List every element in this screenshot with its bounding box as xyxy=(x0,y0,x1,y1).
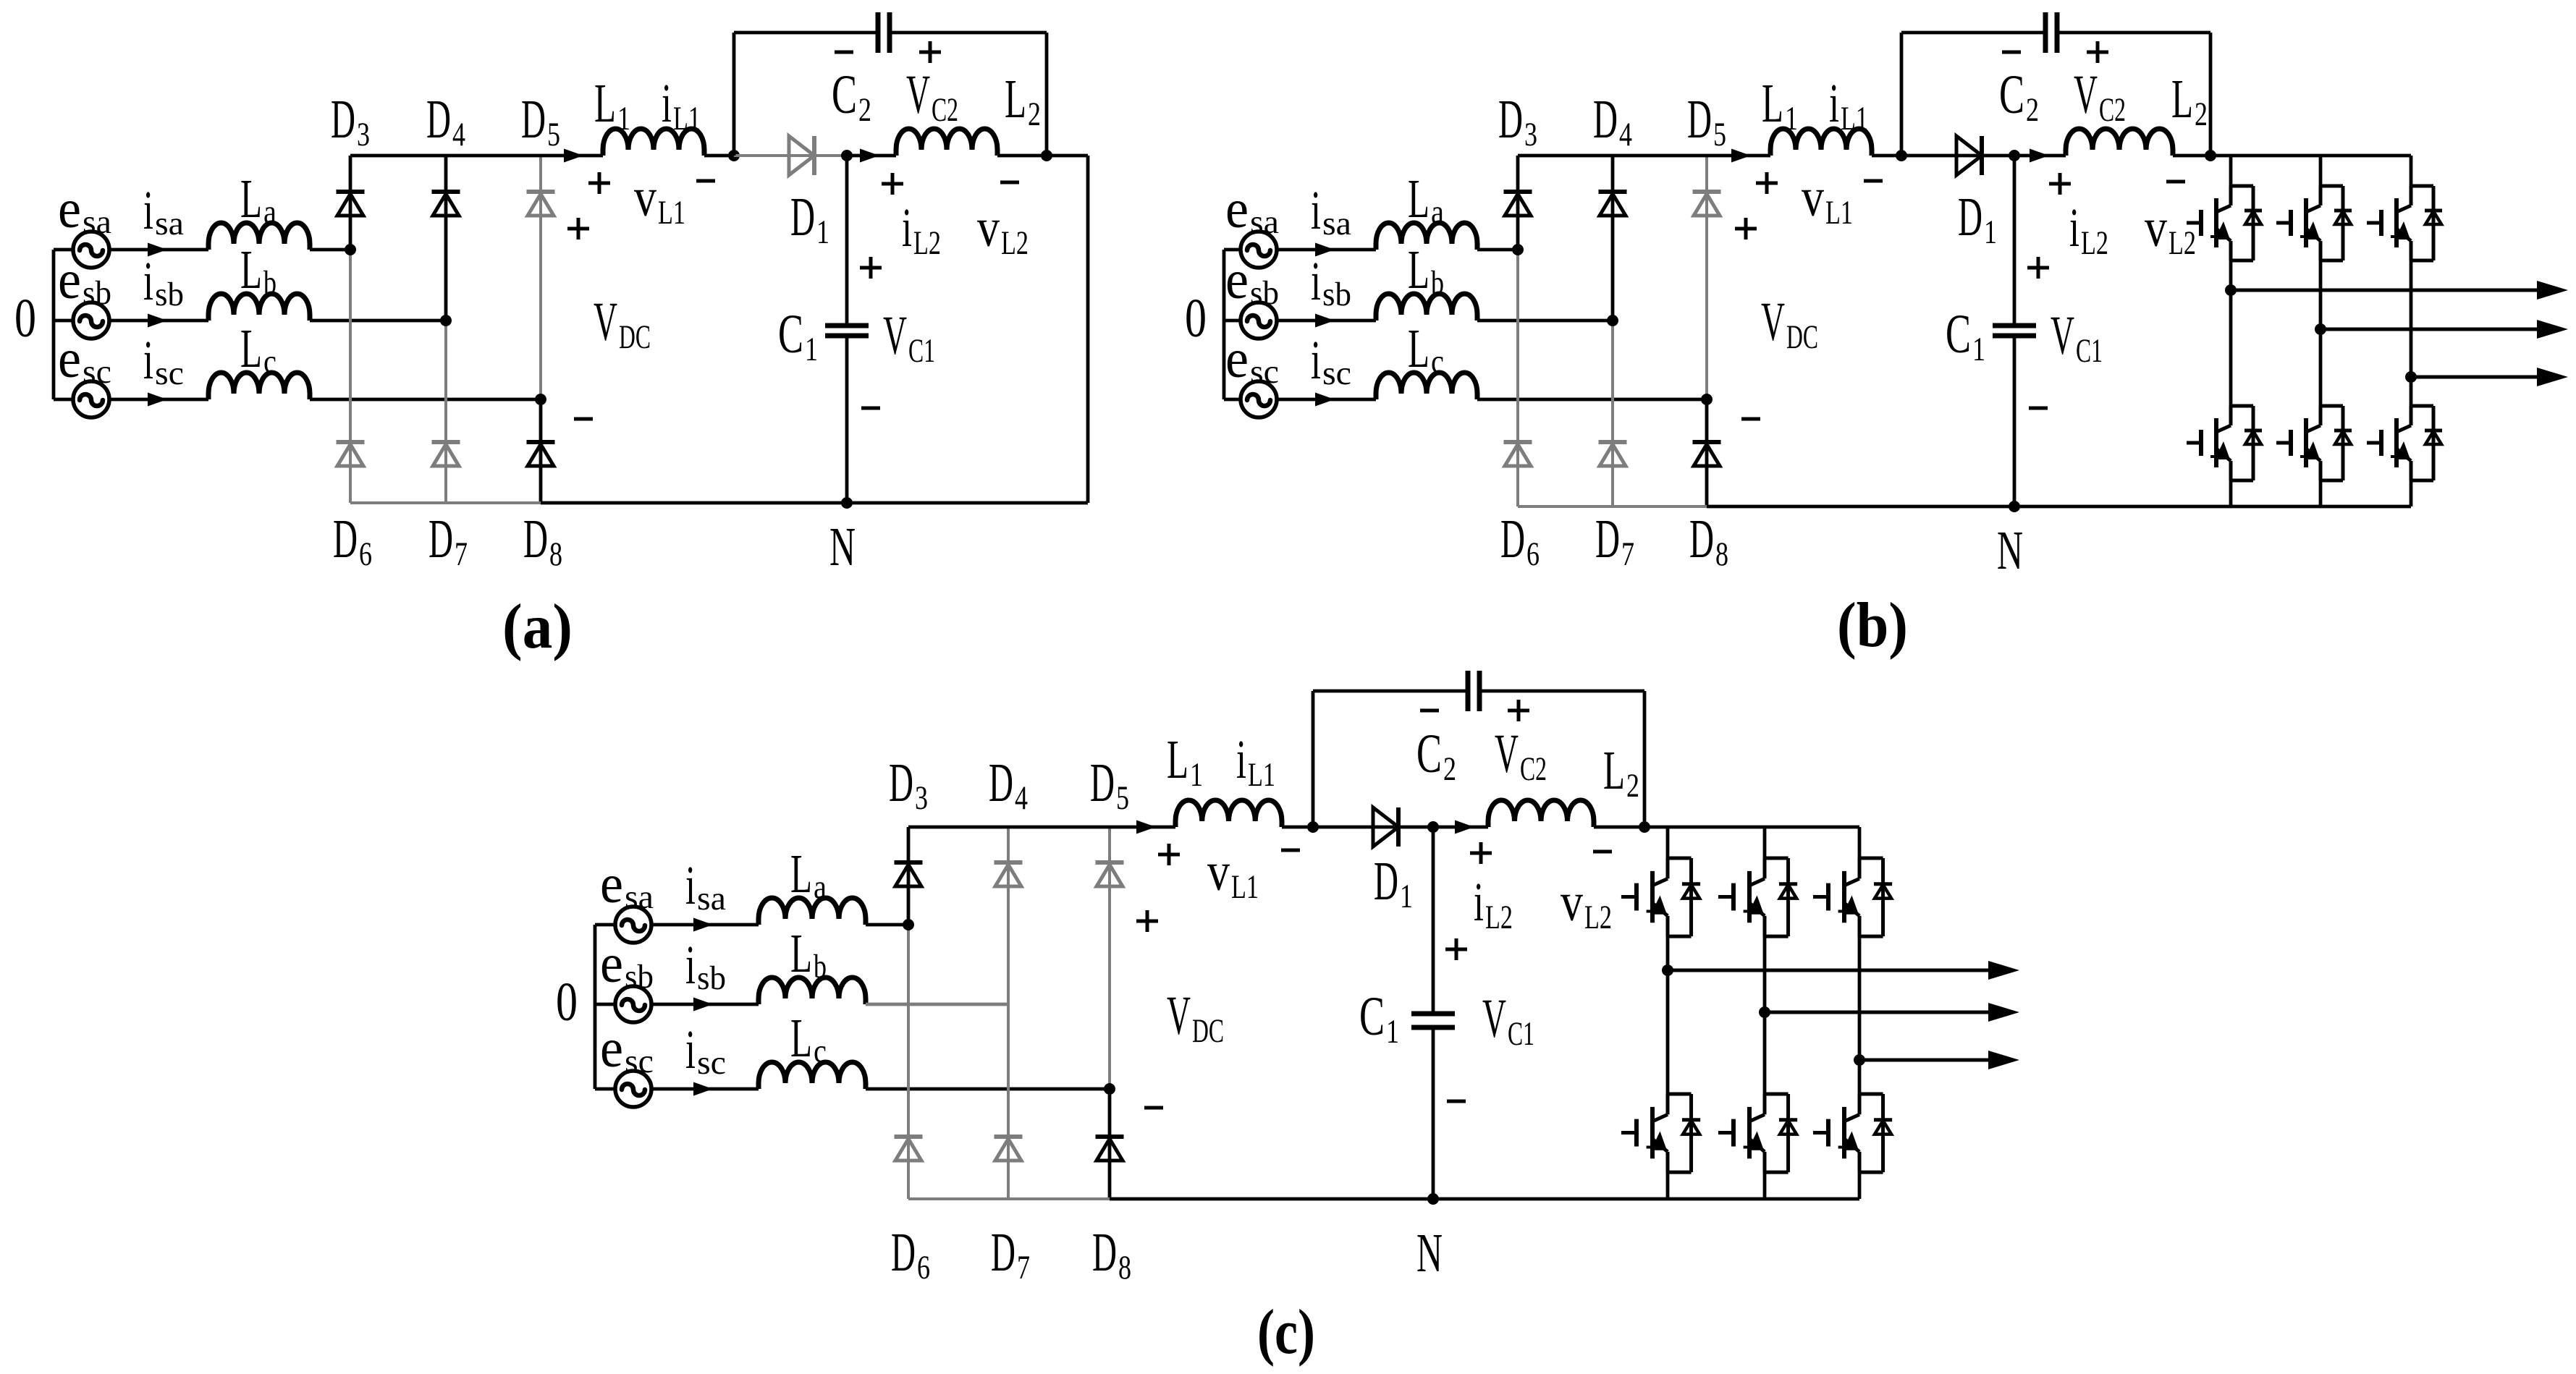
a wire C2 left vertical xyxy=(732,33,736,156)
a diode D7 xyxy=(432,440,460,444)
c inverter leg b upper wire xyxy=(1763,827,1767,858)
a capacitor C1 xyxy=(825,323,869,328)
c diode D8 xyxy=(1096,1135,1124,1139)
c C2 plus sign xyxy=(1508,709,1529,713)
c L2 minus sign xyxy=(1593,850,1612,854)
b wire C2 top left xyxy=(1901,31,2045,35)
c IGBT S5 bottom xyxy=(1765,1093,1789,1096)
a diode D3 xyxy=(337,190,365,194)
b bridge leg 2 lower wire xyxy=(1611,321,1614,506)
a node phase b junction xyxy=(440,315,452,326)
a top rail wire xyxy=(350,154,603,158)
b diode D7 xyxy=(1599,440,1627,444)
c diode D1 xyxy=(1373,807,1398,847)
b wire C1 upper xyxy=(2013,156,2017,326)
b inductor Lb xyxy=(1376,294,1477,321)
a wire inductor to bridge a xyxy=(310,248,350,252)
a wire bus to source a xyxy=(54,248,73,252)
a diode D8 xyxy=(527,440,555,444)
c bottom rail wire xyxy=(1110,1197,1859,1201)
b inverter leg c upper wire xyxy=(2410,156,2413,186)
b wire C2 top right xyxy=(2057,31,2210,35)
a wire inductor to bridge b xyxy=(310,319,446,323)
c capacitor C1 xyxy=(1411,1012,1455,1017)
svg-text:N: N xyxy=(1416,1223,1443,1284)
c node after L2 xyxy=(1639,821,1650,833)
c IGBT S2 top xyxy=(1765,857,1789,860)
svg-text:0: 0 xyxy=(556,972,578,1032)
c diode D5 xyxy=(1096,860,1124,865)
svg-text:N: N xyxy=(829,517,856,577)
b wire inductor to bridge a xyxy=(1477,248,1518,252)
c bridge leg 2 lower wire xyxy=(1007,1004,1010,1199)
a bottom rail wire xyxy=(541,501,1088,505)
a node after L2 xyxy=(1041,150,1052,161)
b node N xyxy=(2009,501,2020,512)
a C1 plus sign xyxy=(860,266,882,270)
svg-text:0: 0 xyxy=(14,288,36,349)
c current arrow i_sb xyxy=(693,998,713,1012)
c bridge leg 1 lower wire xyxy=(907,925,910,1199)
b output arrow phase b xyxy=(2320,328,2539,331)
svg-text:0: 0 xyxy=(1185,288,1207,349)
b bottom rail gray segment xyxy=(1518,505,1707,508)
b wire node to L2 xyxy=(2014,154,2066,158)
c phase b source e_sb xyxy=(615,986,651,1022)
a wire node to diode D1 xyxy=(734,154,847,157)
b diode D8 xyxy=(1693,440,1721,444)
c wire source to inductor a xyxy=(651,923,759,927)
a v_L1 minus sign xyxy=(696,179,715,183)
a node N xyxy=(841,497,853,509)
b inductor La xyxy=(1376,223,1477,250)
b wire source to inductor a xyxy=(1277,248,1376,252)
b inductor L2 xyxy=(2066,129,2173,156)
b node after L1 xyxy=(1896,150,1907,161)
c wire inductor to bridge b xyxy=(866,1003,1008,1006)
c bridge leg 3 lower wire xyxy=(1108,1089,1112,1199)
c wire inductor to bridge c xyxy=(866,1087,1110,1091)
a inductor L2 xyxy=(896,129,997,156)
a diode D4 xyxy=(432,190,460,194)
b neutral bus wire xyxy=(1222,250,1226,399)
c inductor La xyxy=(759,898,866,925)
b diode D6 xyxy=(1504,440,1532,444)
b current arrow i_sc xyxy=(1315,393,1335,407)
c wire bus to source b xyxy=(595,1003,615,1006)
b IGBT S1 top xyxy=(2231,185,2253,188)
a wire L2 to node xyxy=(997,154,1047,158)
a neutral bus wire xyxy=(52,250,56,399)
c inverter leg c middle wire xyxy=(1858,936,1862,1094)
a V_DC plus sign xyxy=(567,227,589,231)
c wire C2 top left xyxy=(1313,690,1468,693)
a bridge leg 2 lower wire xyxy=(444,321,447,503)
b wire source to inductor c xyxy=(1277,398,1376,402)
c phase c source e_sc xyxy=(615,1071,651,1107)
c neutral bus wire xyxy=(594,925,597,1089)
c diode D4 xyxy=(994,860,1023,865)
a node D1 cathode xyxy=(841,150,853,161)
b diode D1 xyxy=(1956,136,1982,175)
c inverter leg b lower wire xyxy=(1763,1172,1767,1199)
c phase a source e_sa xyxy=(615,907,651,943)
b IGBT S2 top xyxy=(2320,185,2343,188)
b IGBT S5 bottom xyxy=(2320,404,2343,408)
b output node c xyxy=(2405,371,2417,383)
b inverter leg b upper wire xyxy=(2319,156,2323,186)
b V_DC plus sign xyxy=(1735,227,1757,231)
b L2 plus sign xyxy=(2049,182,2071,186)
c wire inductor to bridge a xyxy=(866,923,908,927)
a diode D5 xyxy=(527,190,555,194)
a right edge wire xyxy=(1086,156,1090,503)
b output node b xyxy=(2315,323,2326,335)
b v_L1 minus sign xyxy=(1864,179,1883,183)
b inverter top rail xyxy=(2210,154,2411,158)
b inductor Lc xyxy=(1376,373,1477,399)
a C2 plus sign xyxy=(919,51,941,54)
c diode D3 xyxy=(895,860,923,865)
c inductor Lc xyxy=(759,1062,866,1089)
b phase a source e_sa xyxy=(1241,232,1277,268)
c bridge leg 1 upper wire xyxy=(907,827,911,925)
b IGBT S3 top xyxy=(2411,185,2433,188)
b inverter leg b middle wire xyxy=(2319,260,2323,406)
c IGBT S4 bottom xyxy=(1668,1093,1692,1096)
c V_DC minus sign xyxy=(1144,1106,1163,1110)
b current arrow i_sb xyxy=(1315,314,1335,328)
c inductor L1 xyxy=(1175,800,1282,827)
b rectifier output arrow xyxy=(1731,149,1751,163)
a wire bus to source b xyxy=(54,319,73,323)
a node after L1 xyxy=(728,150,740,161)
b bridge leg 3 lower wire xyxy=(1705,399,1709,506)
c node after L1 xyxy=(1307,821,1319,833)
c inverter leg a middle wire xyxy=(1666,936,1670,1094)
b L2 minus sign xyxy=(2166,180,2185,184)
a bottom rail gray segment xyxy=(350,501,541,504)
a bridge leg 2 upper wire xyxy=(444,156,448,321)
a wire inductor to bridge c xyxy=(310,398,541,402)
c wire L2 to node xyxy=(1594,826,1644,829)
a rectifier output arrow xyxy=(564,149,583,163)
b phase c source e_sc xyxy=(1241,381,1277,417)
b V_DC minus sign xyxy=(1741,417,1760,421)
c wire C2 top right xyxy=(1479,690,1644,693)
c wire bus to source a xyxy=(595,923,615,927)
a wire node3 to right edge xyxy=(1047,154,1088,158)
a current arrow i_sc xyxy=(148,393,167,407)
c C1 plus sign xyxy=(1445,948,1467,951)
b wire C2 right vertical xyxy=(2209,33,2213,156)
c arrow into L2 xyxy=(1455,820,1474,834)
b capacitor C2 xyxy=(2043,12,2048,53)
b bridge leg 2 upper wire xyxy=(1611,156,1615,321)
c C1 minus sign xyxy=(1447,1100,1466,1103)
c output arrow phase a xyxy=(1668,969,1990,972)
a v_L1 plus sign xyxy=(588,182,610,185)
c v_L1 minus sign xyxy=(1281,849,1300,852)
b wire C2 left vertical xyxy=(1900,33,1904,156)
b wire source to inductor b xyxy=(1277,319,1376,323)
svg-text:(b): (b) xyxy=(1837,590,1908,661)
c wire C1 upper xyxy=(1432,827,1435,1014)
a L2 minus sign xyxy=(1000,181,1019,185)
b bridge leg 3 upper wire xyxy=(1705,156,1708,399)
a diode D1 xyxy=(789,136,814,175)
b inverter leg b lower wire xyxy=(2319,480,2323,506)
a diode D6 xyxy=(337,440,365,444)
b inverter leg c lower wire xyxy=(2410,480,2413,506)
c node phase c junction xyxy=(1104,1083,1115,1095)
b bridge leg 1 upper wire xyxy=(1516,156,1520,250)
c bottom rail gray segment xyxy=(908,1197,1110,1200)
c output node b xyxy=(1759,1006,1770,1018)
b wire L1 to node xyxy=(1872,154,1901,158)
c output node a xyxy=(1662,964,1673,976)
c inductor Lb xyxy=(759,978,866,1004)
c output arrow phase b xyxy=(1765,1011,1990,1014)
c inverter leg a upper wire xyxy=(1666,827,1670,858)
a node phase c junction xyxy=(535,394,546,405)
b C1 minus sign xyxy=(2029,407,2048,410)
b wire C1 lower xyxy=(2013,336,2017,506)
a wire C1 lower xyxy=(845,336,849,503)
a wire L1 to node xyxy=(704,154,734,158)
svg-text:N: N xyxy=(1997,520,2023,581)
b node phase b junction xyxy=(1607,315,1618,326)
a inductor Lc xyxy=(208,373,310,399)
a wire node to L2 xyxy=(847,154,896,158)
b node phase c junction xyxy=(1701,394,1713,405)
b C2 minus sign xyxy=(2002,51,2021,54)
c output node c xyxy=(1854,1054,1865,1066)
c capacitor C2 xyxy=(1466,671,1471,711)
c L2 plus sign xyxy=(1470,852,1492,855)
a inductor Lb xyxy=(208,294,310,321)
b C2 plus sign xyxy=(2087,51,2108,54)
b wire L2 to node xyxy=(2173,154,2210,158)
a capacitor C2 xyxy=(876,12,881,53)
c inverter leg c upper wire xyxy=(1858,827,1862,858)
b wire bus to source a xyxy=(1224,248,1241,252)
b output arrow phase a xyxy=(2231,289,2539,292)
a arrow into L2 xyxy=(860,149,879,163)
a bridge leg 1 upper wire xyxy=(349,156,352,250)
b diode D5 xyxy=(1693,190,1721,194)
c output arrow phase c xyxy=(1859,1059,1990,1062)
c inverter top rail xyxy=(1644,826,1859,829)
c v_L1 plus sign xyxy=(1158,853,1180,857)
b phase b source e_sb xyxy=(1241,302,1277,339)
a V_DC minus sign xyxy=(574,417,593,421)
a wire bus to source c xyxy=(54,398,73,402)
b diode D4 xyxy=(1599,190,1627,194)
c bridge leg 2 upper wire xyxy=(1007,827,1010,1004)
b bottom rail wire xyxy=(1707,505,2411,509)
svg-text:(c): (c) xyxy=(1257,1297,1315,1367)
b current arrow i_sa xyxy=(1315,243,1335,257)
b inductor L1 xyxy=(1770,129,1872,156)
b output arrow phase c xyxy=(2411,376,2539,379)
c inverter leg a lower wire xyxy=(1666,1172,1670,1199)
c node D1 cathode xyxy=(1427,821,1439,833)
a wire C2 right vertical xyxy=(1045,33,1049,156)
c wire bus to source c xyxy=(595,1087,615,1091)
b inverter leg a lower wire xyxy=(2229,480,2233,506)
c IGBT S1 top xyxy=(1668,857,1692,860)
c wire L1 to node xyxy=(1282,826,1313,829)
c bridge leg 3 upper wire xyxy=(1108,827,1111,1089)
c wire C2 left vertical xyxy=(1312,691,1315,827)
c current arrow i_sc xyxy=(693,1082,713,1096)
a phase c source e_sc xyxy=(73,381,109,417)
b bridge leg 1 lower wire xyxy=(1516,250,1519,506)
a phase b source e_sb xyxy=(73,302,109,339)
b wire bus to source c xyxy=(1224,398,1241,402)
a wire source to inductor a xyxy=(109,248,208,252)
b node phase a junction xyxy=(1512,244,1524,255)
b IGBT S4 bottom xyxy=(2231,404,2253,408)
b node D1 cathode xyxy=(2009,150,2020,161)
c V_DC plus sign xyxy=(1136,920,1158,923)
svg-text:(a): (a) xyxy=(502,592,573,662)
b wire bus to source b xyxy=(1224,319,1241,323)
b wire node to diode D1 xyxy=(1901,154,2014,158)
c wire C1 lower xyxy=(1432,1027,1435,1199)
b node after L2 xyxy=(2205,150,2216,161)
a phase a source e_sa xyxy=(73,232,109,268)
a wire source to inductor b xyxy=(109,319,208,323)
c current arrow i_sa xyxy=(693,918,713,932)
b top rail wire xyxy=(1518,154,1770,158)
c inductor L2 xyxy=(1488,800,1594,827)
b inverter leg a upper wire xyxy=(2229,156,2233,186)
a bridge leg 3 lower wire xyxy=(539,399,543,503)
a node phase a junction xyxy=(345,244,356,255)
a current arrow i_sb xyxy=(148,314,167,328)
c node N xyxy=(1427,1193,1439,1205)
a L2 plus sign xyxy=(882,182,903,186)
c wire source to inductor b xyxy=(651,1003,759,1006)
a C1 minus sign xyxy=(861,407,880,410)
b wire inductor to bridge b xyxy=(1477,319,1613,323)
b inverter leg a middle wire xyxy=(2229,260,2233,406)
c wire C2 right vertical xyxy=(1643,691,1647,827)
b v_L1 plus sign xyxy=(1756,182,1778,185)
a bridge leg 3 upper wire xyxy=(539,156,542,399)
b inverter leg c middle wire xyxy=(2410,260,2413,406)
c top rail wire xyxy=(908,826,1175,829)
b output node a xyxy=(2225,284,2237,296)
b capacitor C1 xyxy=(1993,323,2036,328)
c inverter leg b middle wire xyxy=(1763,936,1767,1094)
c rectifier output arrow xyxy=(1136,820,1156,834)
a wire C2 top left xyxy=(734,31,878,35)
b arrow into L2 xyxy=(2030,149,2049,163)
a wire C1 upper xyxy=(845,156,849,326)
c IGBT S6 bottom xyxy=(1859,1093,1883,1096)
a C2 minus sign xyxy=(835,51,853,54)
a inductor L1 xyxy=(603,129,704,156)
b wire inductor to bridge c xyxy=(1477,398,1707,402)
c wire source to inductor c xyxy=(651,1087,759,1091)
c diode D7 xyxy=(994,1135,1023,1139)
c C2 minus sign xyxy=(1420,709,1439,713)
a inductor La xyxy=(208,223,310,250)
b C1 plus sign xyxy=(2027,266,2049,270)
a wire source to inductor c xyxy=(109,398,208,402)
c inverter leg c lower wire xyxy=(1858,1172,1862,1199)
c IGBT S3 top xyxy=(1859,857,1883,860)
c node phase a junction xyxy=(903,919,914,930)
c wire node to diode D1 xyxy=(1313,826,1433,829)
b IGBT S6 bottom xyxy=(2411,404,2433,408)
b diode D3 xyxy=(1504,190,1532,194)
a wire C2 top right xyxy=(890,31,1047,35)
c wire node to L2 xyxy=(1433,826,1488,829)
a current arrow i_sa xyxy=(148,243,167,257)
a bridge leg 1 lower wire xyxy=(349,250,352,503)
c diode D6 xyxy=(895,1135,923,1139)
